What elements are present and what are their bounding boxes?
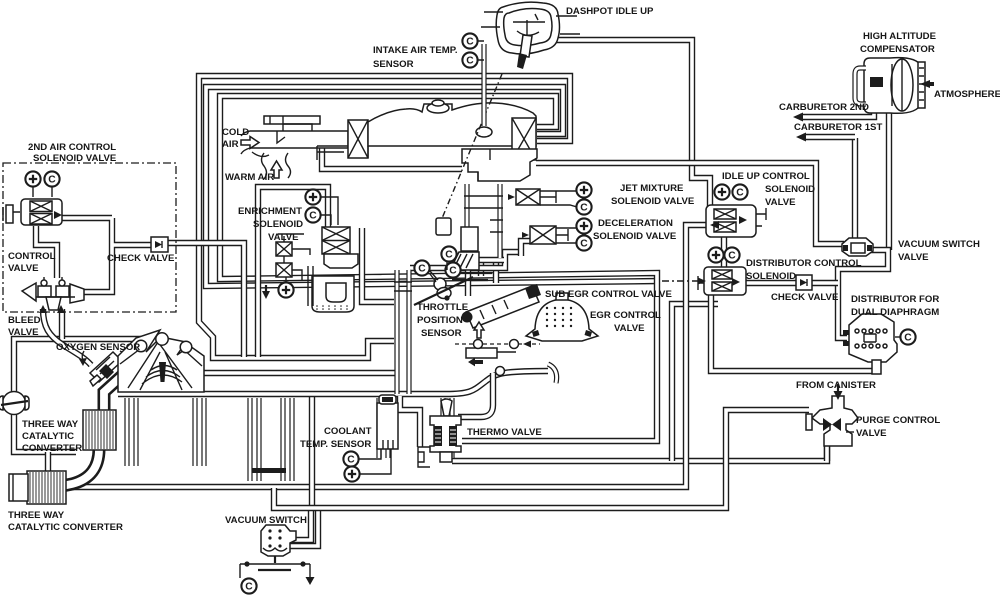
distributor control solenoid body [698,267,746,295]
wire enrichment terminals [321,197,338,225]
vacuum switch stem and terminals [240,556,315,585]
svg-text:COLD: COLD [222,127,249,138]
svg-text:THERMO VALVE: THERMO VALVE [467,427,542,438]
wire intake runner 1 [127,398,136,466]
air cleaner base lines [317,146,368,160]
junction dark bar under runners [252,468,286,473]
wire intake runner 6 [443,398,452,458]
arrow atmosphere [920,80,934,88]
wire purge valve bottom stub [824,444,830,461]
thermo valve body [430,399,461,462]
svg-text:JET MIXTURE: JET MIXTURE [620,183,684,194]
solenoid valve 2nd air coil upper [30,201,52,212]
svg-text:VALVE: VALVE [8,327,39,338]
terminal plus choke [278,282,293,297]
wire float bowl hose to riser [362,228,394,302]
oxygen sensor probe [90,352,122,386]
solenoid valve 2nd air plunger [3,205,20,223]
wire vacuum switch riser [309,397,315,509]
wire check valve left hose to 2nd air solenoid [62,218,152,292]
svg-text:OXYGEN SENSOR: OXYGEN SENSOR [56,342,140,353]
svg-text:SOLENOID VALVE: SOLENOID VALVE [33,153,117,164]
svg-text:CHECK VALVE: CHECK VALVE [107,253,175,264]
wire venturi stack stubs to bands [481,262,496,283]
carburetor body [462,149,537,181]
terminal C intake air temp lower [462,52,477,67]
wire intake air temp sensor probe line [481,44,486,128]
solenoid valve 2nd air control body [21,199,62,225]
warm air stove squiggles [252,152,291,179]
svg-text:THREE WAY: THREE WAY [22,419,79,430]
terminal C jet mixture [576,199,591,214]
wire intake manifold line with s-bend [118,371,548,394]
wire enrichment solenoid feed [258,187,328,357]
three way catalytic converter lower [9,471,66,504]
svg-text:C: C [904,333,912,344]
air duct flex joint box [348,120,368,158]
svg-text:CATALYTIC: CATALYTIC [22,431,74,442]
arrow oxygen sensor [79,351,87,366]
svg-text:THREE WAY: THREE WAY [8,510,65,521]
terminal plus idle up [714,184,729,199]
egr piping block [466,348,516,358]
svg-text:TEMP. SENSOR: TEMP. SENSOR [300,439,371,450]
svg-text:VALVE: VALVE [268,232,299,243]
svg-text:C: C [347,455,355,466]
wire choke terminal stem [285,277,287,283]
throttle linkage box [436,218,451,235]
svg-text:SOLENOID: SOLENOID [253,219,303,230]
egr control valve dome [526,293,598,341]
pointer oxygen sensor [120,351,152,366]
air horn flex joint box [512,118,536,160]
dashed choke linkage [438,74,502,228]
terminal C coolant [343,451,358,466]
terminal C enrichment [305,207,320,222]
solenoid valve deceleration [530,226,556,244]
wire distributor solenoid branch down to purge line [672,304,718,461]
svg-text:VALVE: VALVE [614,323,645,334]
thermo valve bracket [418,447,430,467]
wire carb riser left [394,270,399,394]
wire carb base corner stub right [521,241,536,256]
wire carburetor 2nd line [800,96,874,117]
terminal C tps lower [445,262,460,277]
wire intake runner 5 [379,398,388,458]
check valve right symbol [796,275,812,290]
terminal C tps upper [441,246,456,261]
wire idle up valve to distributor control solenoid [721,237,727,268]
svg-text:FROM CANISTER: FROM CANISTER [796,380,876,391]
wire bleed valve upper hose [14,339,150,394]
air cleaner dome [368,100,536,146]
wire bottom hose to purge valve top port [274,410,809,508]
wire check valve hose down to riser hose [167,243,244,357]
wire terminal stems 2nd air [33,187,52,197]
solenoid jet mixture plunger [508,191,556,203]
wire top bundle middle T2 to band Q [206,87,660,286]
intake air temp sensor boss [476,127,492,137]
svg-text:CONVERTER: CONVERTER [22,443,82,454]
solenoid valve 2nd air coil lower [30,214,52,225]
terminal plus deceleration [576,218,591,233]
wire egr pipe down to thermo valve [458,373,493,417]
svg-text:C: C [309,211,317,222]
venturi stack left [464,184,469,260]
wire control valve air injection hose [43,309,91,365]
svg-text:C: C [445,250,453,261]
arrow from canister [834,384,843,400]
svg-text:VALVE: VALVE [856,428,887,439]
control valve body [22,277,84,310]
svg-text:DASHPOT IDLE UP: DASHPOT IDLE UP [566,6,654,17]
svg-text:DUAL DIAPHRAGM: DUAL DIAPHRAGM [851,307,939,318]
svg-text:VALVE: VALVE [8,263,39,274]
wire intake runner 3 [250,398,259,481]
dashpot idle up device [481,2,580,69]
arrow cold air [241,137,259,149]
accelerator pump box [461,227,478,251]
svg-text:C: C [580,203,588,214]
terminal C tps left [414,260,429,275]
three way catalytic converter upper [83,410,116,450]
wire carburetor base hose to vacuum switch valve [536,163,844,244]
svg-text:VALVE: VALVE [898,252,929,263]
svg-text:THROTTLE: THROTTLE [417,302,469,313]
idle up control solenoid valve body [706,205,766,237]
wire top bundle outer T1 to carb riser [199,76,570,358]
svg-text:COOLANT: COOLANT [324,426,372,437]
wire vacuum switch hose lower [290,508,318,546]
wire jet mixture to terminals [540,191,577,207]
venturi rungs [464,196,503,232]
high altitude compensator body [864,58,925,114]
choke valve boxes [276,234,310,280]
terminal C distributor control [724,247,739,262]
terminal C distributor [900,329,915,344]
svg-text:ENRICHMENT: ENRICHMENT [238,206,302,217]
carb step lines [452,273,492,280]
wire distributor to terminal [895,336,900,338]
wire exhaust front pipe [104,372,126,412]
svg-text:SOLENOID: SOLENOID [765,184,815,195]
svg-text:SENSOR: SENSOR [421,328,462,339]
svg-text:2ND AIR CONTROL: 2ND AIR CONTROL [28,142,116,153]
svg-text:CARBURETOR 1ST: CARBURETOR 1ST [794,122,882,133]
svg-text:AIR: AIR [222,139,239,150]
compensator left pipe loop [855,68,866,104]
egr dashed port line [455,340,540,349]
svg-text:C: C [48,175,56,186]
terminal plus enrichment [305,189,320,204]
dashed enclosure 2nd air control solenoid valve [3,163,176,312]
carb riser rungs [394,282,412,291]
svg-text:C: C [466,56,474,67]
svg-text:SENSOR: SENSOR [373,59,414,70]
svg-text:DISTRIBUTOR CONTROL: DISTRIBUTOR CONTROL [746,258,862,269]
wire distributor control check valve hose [746,280,838,286]
air duct cold air snorkel [241,116,348,154]
solenoid valve jet mixture [516,189,540,205]
svg-text:CATALYTIC CONVERTER: CATALYTIC CONVERTER [8,522,123,533]
check valve left symbol [151,237,168,252]
wire intake runner 2 [195,398,204,466]
wire carb riser right [406,270,411,394]
svg-text:C: C [449,266,457,277]
svg-text:POSITION: POSITION [417,315,463,326]
wire intake runner 4 [283,398,292,481]
wire sub egr valve hose [468,260,504,296]
wire idle up valve left hose / long loop to bleed valve [48,225,707,487]
sub egr control valve cylinder [462,284,542,328]
svg-text:DECELERATION: DECELERATION [598,218,673,229]
vacuum switch body [261,525,296,556]
wire thermo valve lower hose to purge valve bottom [452,444,827,461]
svg-text:DISTRIBUTOR FOR: DISTRIBUTOR FOR [851,294,939,305]
solenoid valve 2nd air arrow [54,211,62,219]
solenoid valve enrichment coil [322,227,350,254]
svg-text:C: C [736,188,744,199]
terminal C idle up [732,184,747,199]
carb wedge detail [450,252,479,270]
arrow carburetor 2nd [793,113,803,122]
terminal plus coolant [344,466,359,481]
svg-text:HIGH ALTITUDE: HIGH ALTITUDE [863,31,937,42]
svg-text:WARM AIR: WARM AIR [225,172,274,183]
svg-text:VACUUM SWITCH: VACUUM SWITCH [898,239,980,250]
wire dashpot hose to idle up valve [552,40,710,206]
throttle position sensor body [414,262,473,305]
svg-text:IDLE UP CONTROL: IDLE UP CONTROL [722,171,810,182]
svg-text:C: C [418,264,426,275]
solenoid deceleration plunger [522,229,568,241]
wire engine to riser hose lower [204,370,396,376]
arrow up control valve left port [39,305,47,313]
venturi stack right [497,184,502,258]
wire distributor control solenoid bottom to distributor bottom [711,294,877,371]
wire coolant terminals [359,449,391,474]
wire carburetor 1st drop to vacuum switch valve [852,138,858,238]
svg-text:COMPENSATOR: COMPENSATOR [860,44,935,55]
egr elbow pipe [496,364,557,383]
svg-text:BLEED: BLEED [8,315,41,326]
svg-text:EGR CONTROL: EGR CONTROL [590,310,661,321]
wire 2nd air solenoid to control valve [36,226,57,278]
svg-text:CHECK VALVE: CHECK VALVE [771,292,839,303]
wire exhaust elbow to lower converter [62,449,99,486]
terminal C intake air temp upper [462,33,477,48]
arrow warm air up [271,161,282,178]
engine block [118,330,204,392]
float bowl enrichment [308,254,358,312]
terminal C deceleration [576,235,591,250]
arrow up control valve right port [57,305,65,313]
warm air duct branch [322,146,462,169]
wire connector bleed to long bottom hose [45,452,51,487]
wire vacuum switch valve to distributor line [838,250,888,338]
svg-text:CARBURETOR 2ND: CARBURETOR 2ND [779,102,869,113]
dashed tps link [429,270,438,280]
svg-text:SOLENOID VALVE: SOLENOID VALVE [611,196,695,207]
svg-text:C: C [580,239,588,250]
svg-text:SOLENOID: SOLENOID [746,271,796,282]
svg-text:SOLENOID VALVE: SOLENOID VALVE [593,231,677,242]
bleed valve body [0,392,29,415]
wire compensator down line [886,113,892,250]
wire engine water outlet to thermo [400,396,420,447]
svg-text:PURGE CONTROL: PURGE CONTROL [856,415,940,426]
distributor dual diaphragm body [843,314,897,374]
wire deceleration to terminals [556,228,577,243]
wire intake air temp probe overlay [481,100,486,126]
wire carburetor 1st line [803,134,855,140]
svg-text:VACUUM SWITCH: VACUUM SWITCH [225,515,307,526]
wire riser top hose to carb base [410,252,518,268]
purge control valve body [806,396,858,446]
svg-text:C: C [466,37,474,48]
dash dot line into distributor control solenoid [662,278,706,285]
terminal plus 2nd air [25,171,40,186]
arrow egr piping [468,358,483,367]
wire top bundle inner T3 band P to thermo valve [220,96,657,441]
arrow down choke [262,285,270,299]
svg-text:CONTROL: CONTROL [8,251,56,262]
arrow carburetor 1st [796,133,806,142]
svg-text:VALVE: VALVE [765,197,796,208]
terminal plus jet mixture [576,182,591,197]
wire intake air temp stems [477,41,484,60]
wire bleed valve lower hose [14,413,76,452]
arrow up sub egr [474,322,484,338]
coolant temp sensor body [377,395,398,449]
terminal C 2nd air [44,171,59,186]
terminal C vacuum switch [241,578,256,593]
svg-text:SUB EGR CONTROL VALVE: SUB EGR CONTROL VALVE [545,289,672,300]
wire control valve right drop [59,309,65,339]
svg-text:INTAKE AIR TEMP.: INTAKE AIR TEMP. [373,45,458,56]
svg-text:C: C [728,251,736,262]
vacuum switch valve body [842,238,873,256]
svg-text:ATMOSPHERE: ATMOSPHERE [934,89,1000,100]
svg-text:C: C [245,582,253,593]
terminal plus distributor control [708,247,723,262]
wire vacuum switch hose upper [290,508,311,540]
